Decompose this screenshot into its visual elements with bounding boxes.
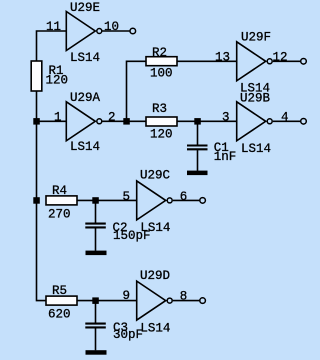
terminal pin 8 [200, 298, 206, 304]
svg-text:11: 11 [46, 20, 61, 34]
svg-text:5: 5 [123, 190, 131, 204]
op-amp U29A triangle [66, 102, 102, 141]
svg-text:R3: R3 [152, 102, 167, 116]
svg-text:8: 8 [180, 289, 188, 303]
resistor R4 body [46, 196, 77, 205]
capacitor C1 plates [187, 146, 208, 150]
svg-text:4: 4 [281, 110, 289, 124]
svg-text:9: 9 [123, 289, 131, 303]
svg-text:2: 2 [108, 110, 116, 124]
wire: C3 to ground [95, 329, 97, 351]
wire: R3 to U29B input pin 3 [177, 120, 237, 122]
ground (C2) [86, 251, 107, 256]
wire: U29B output pin 4 to terminal [273, 120, 300, 122]
resistor R1 body [31, 61, 42, 91]
svg-text:270: 270 [48, 207, 71, 221]
wire: node C3 down to capacitor C3 [95, 301, 97, 323]
node C3 junction [92, 297, 99, 304]
node R4 rail junction [33, 197, 40, 204]
ground (C3) [86, 350, 107, 355]
svg-text:30pF: 30pF [113, 328, 143, 342]
wire: R5 to U29D input pin 9 [77, 300, 137, 302]
wire: node B up to R2 row [127, 61, 147, 121]
node C2 junction [92, 197, 99, 204]
node B junction [123, 118, 130, 125]
resistor R5 body [46, 296, 77, 305]
svg-text:10: 10 [104, 20, 119, 34]
wire: node A to U29A input pin 1 [37, 120, 67, 122]
op-amp U29B triangle [237, 102, 273, 141]
svg-text:LS14: LS14 [241, 142, 271, 156]
wire: U29E output pin 10 to terminal [102, 30, 129, 32]
wire: R4 to U29C input pin 5 [77, 199, 137, 201]
svg-text:LS14: LS14 [140, 321, 170, 335]
wire: R2 to U29F input pin 13 [177, 60, 237, 62]
terminal pin 12 [301, 59, 307, 65]
capacitor C3 plates [85, 324, 106, 328]
svg-text:620: 620 [48, 307, 71, 321]
svg-text:6: 6 [180, 190, 188, 204]
svg-text:12: 12 [273, 51, 288, 65]
wire: node C1 down to capacitor C1 [197, 121, 199, 144]
ground (C1) [187, 171, 208, 176]
node A junction [33, 118, 40, 125]
svg-text:R4: R4 [52, 184, 67, 198]
wire: left rail node A down to R5 [37, 121, 47, 300]
capacitor C2 plates [85, 224, 106, 228]
svg-text:U29C: U29C [140, 168, 170, 182]
wire: C2 to ground [95, 229, 97, 251]
op-amp U29D triangle [137, 281, 173, 320]
wire: U29F output pin 12 to terminal [273, 60, 300, 62]
svg-text:13: 13 [215, 50, 230, 64]
wire: U29A output pin 2 to R3 [102, 120, 146, 122]
op-amp U29E triangle [66, 12, 102, 51]
svg-text:R5: R5 [52, 284, 67, 298]
svg-text:R2: R2 [152, 46, 167, 60]
svg-text:150pF: 150pF [113, 229, 151, 243]
svg-text:120: 120 [150, 127, 173, 141]
wire: C1 to ground [197, 150, 199, 171]
wire: node C2 down to capacitor C2 [95, 200, 97, 222]
wire: R1 bottom to node A [36, 91, 38, 121]
svg-text:U29F: U29F [241, 31, 271, 45]
terminal pin 4 [301, 119, 307, 125]
svg-text:3: 3 [222, 110, 230, 124]
wire: U29E input pin 11 [37, 31, 67, 61]
terminal pin 6 [200, 198, 206, 204]
resistor R3 body [146, 117, 177, 126]
svg-text:100: 100 [150, 67, 173, 81]
svg-text:1nF: 1nF [214, 150, 237, 164]
wire: U29C output pin 6 to terminal [173, 199, 200, 201]
op-amp U29C triangle [137, 181, 173, 220]
svg-text:U29A: U29A [70, 91, 101, 105]
svg-text:120: 120 [46, 74, 69, 88]
wire: U29D output pin 8 to terminal [173, 300, 200, 302]
svg-text:U29E: U29E [70, 1, 100, 15]
svg-text:LS14: LS14 [70, 51, 100, 65]
node C1 junction [194, 118, 201, 125]
svg-text:LS14: LS14 [70, 140, 100, 154]
svg-text:U29D: U29D [140, 269, 170, 283]
terminal pin 10 [130, 28, 136, 34]
svg-text:1: 1 [54, 111, 62, 125]
op-amp U29F triangle [237, 42, 273, 81]
svg-text:U29B: U29B [240, 91, 271, 105]
resistor R2 body [146, 57, 177, 66]
